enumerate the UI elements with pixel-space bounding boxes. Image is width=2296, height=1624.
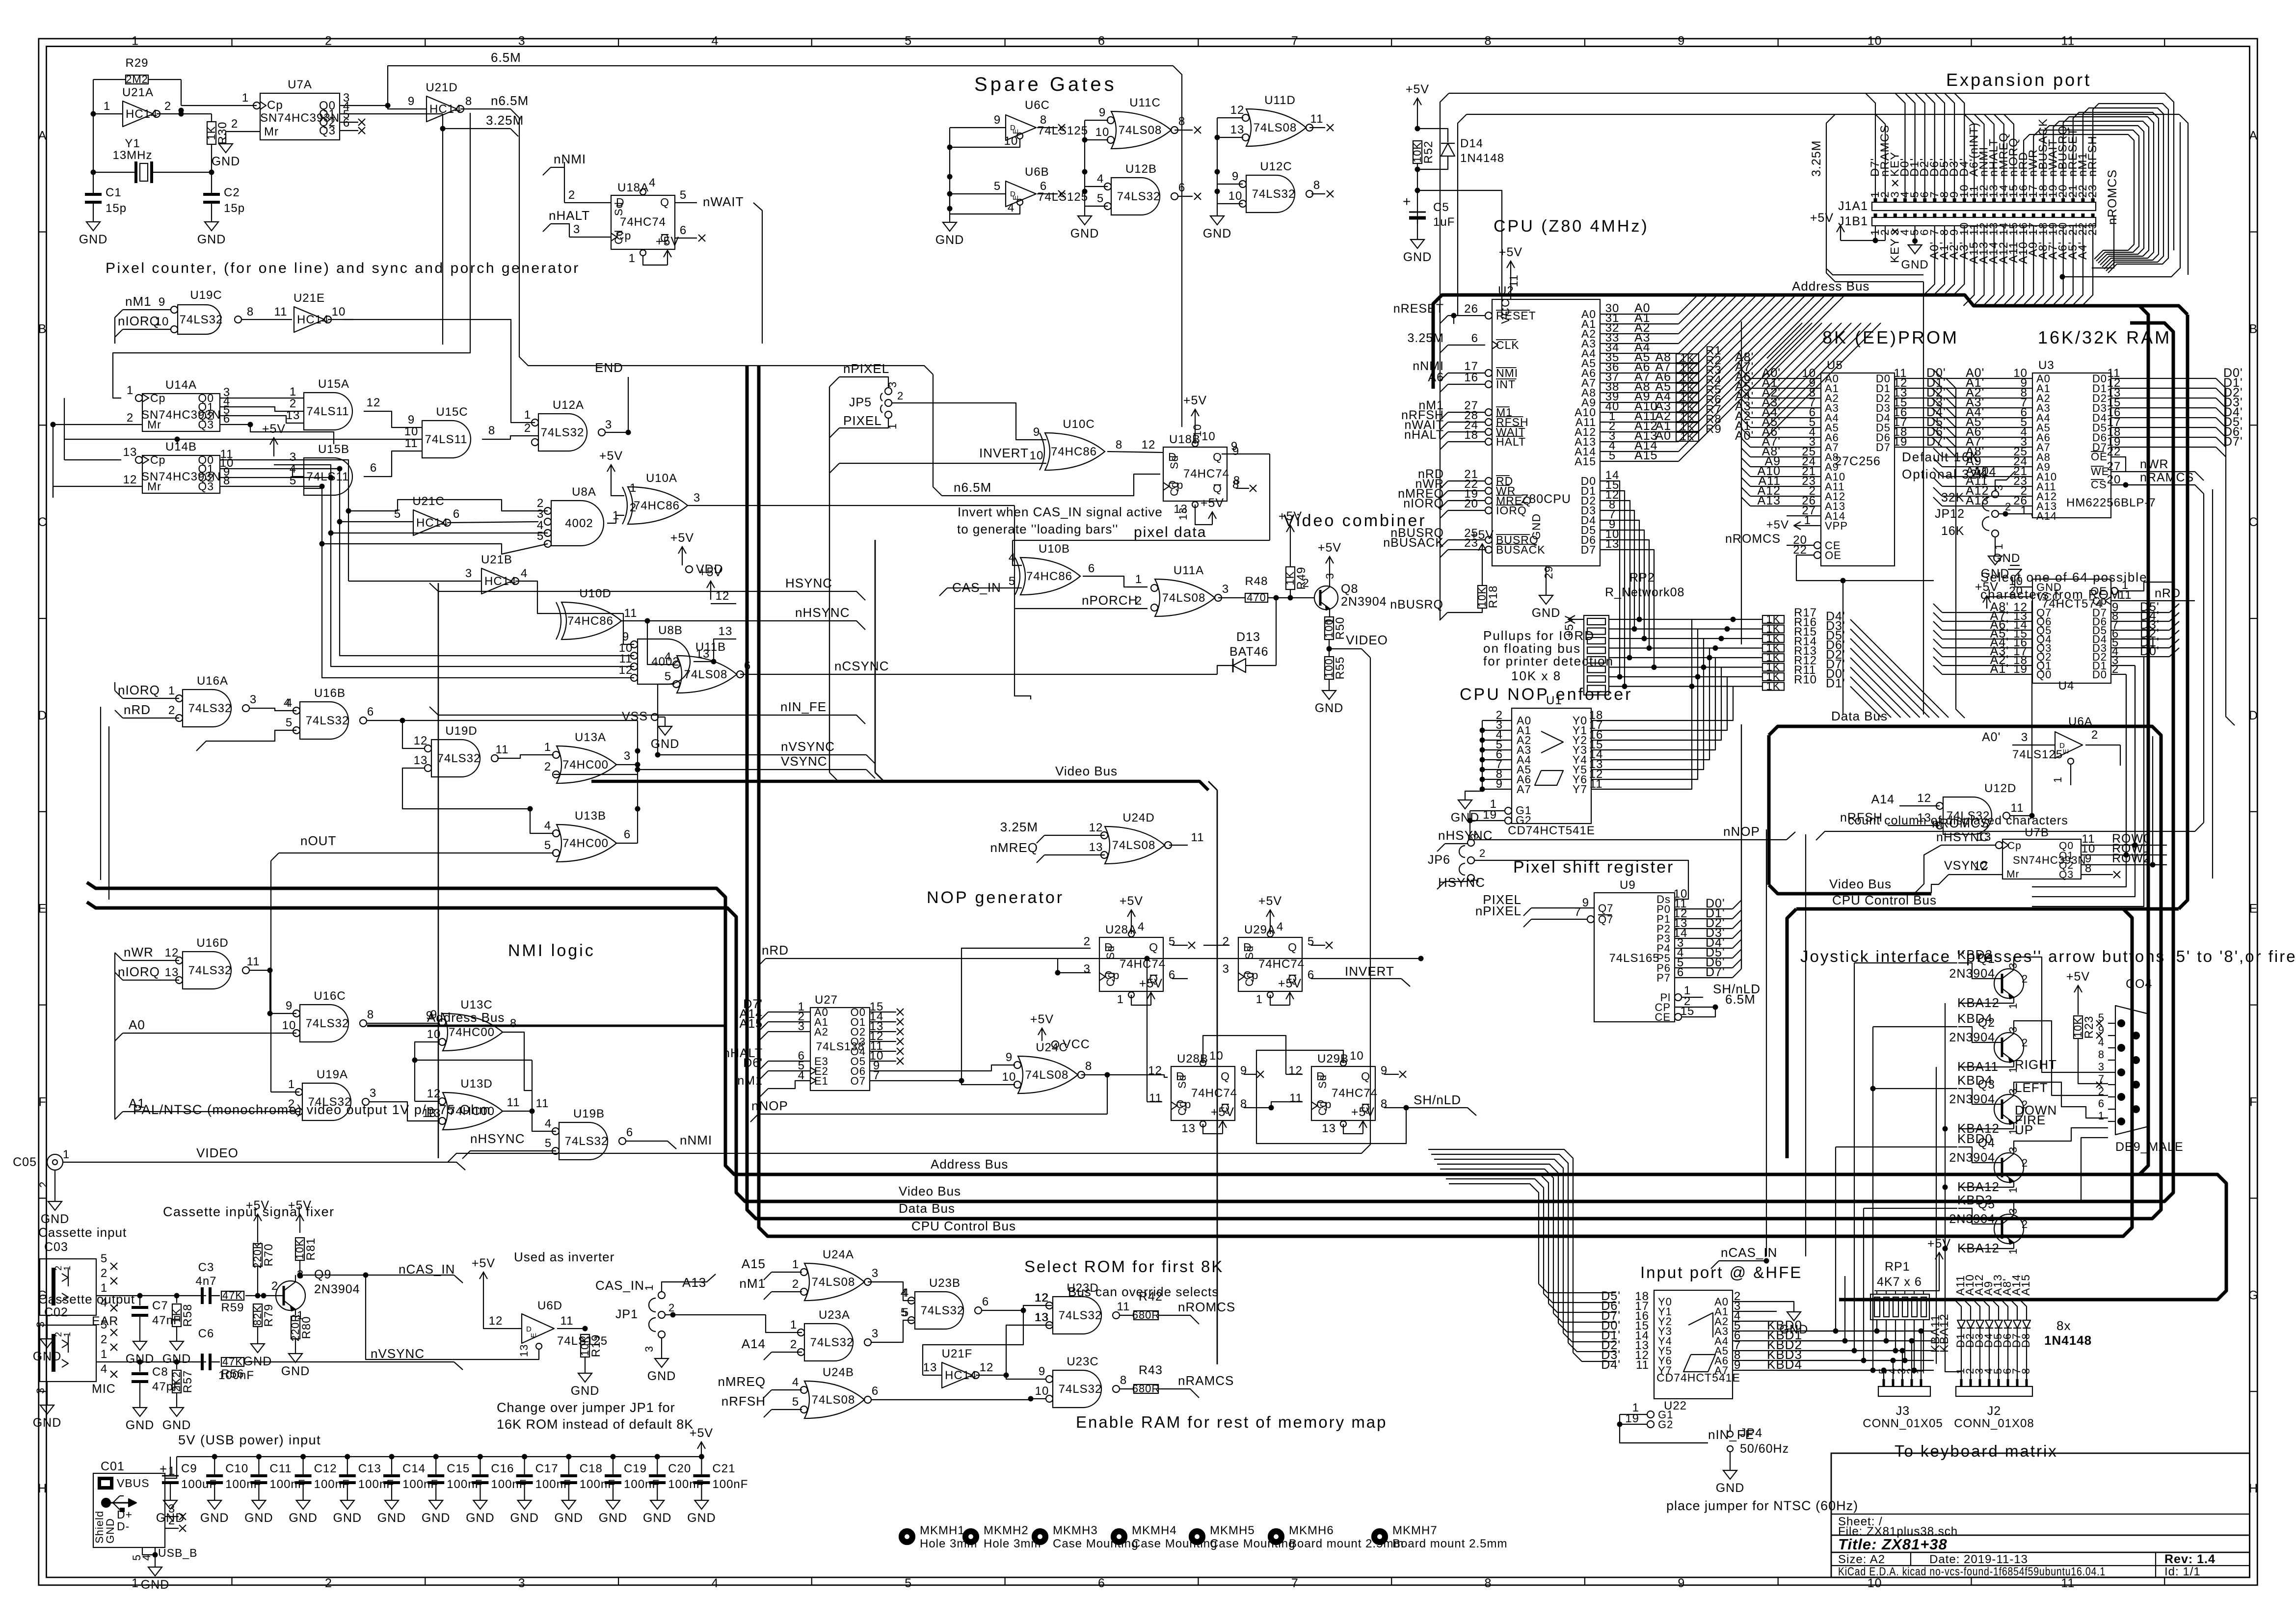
wire U16C out: [367, 1023, 440, 1024]
wire JP1 out: [665, 1314, 766, 1315]
svg-text:13: 13: [1177, 507, 1189, 520]
svg-text:R57: R57: [181, 1370, 194, 1393]
svg-text:2N3904: 2N3904: [314, 1282, 360, 1296]
svg-text:SH/nLD: SH/nLD: [1414, 1092, 1461, 1107]
svg-text:R30: R30: [216, 121, 229, 144]
wire data bus diagonal: [1850, 687, 1882, 718]
svg-text:1: 1: [132, 1576, 139, 1590]
wire: [1866, 93, 1875, 198]
wire U23C in10: [1031, 1398, 1045, 1399]
svg-text:MKMH5: MKMH5: [1210, 1524, 1255, 1537]
+5V U29B cd: [1343, 1124, 1363, 1134]
RAM D fan vertical: [2226, 388, 2235, 725]
svg-text:9: 9: [1231, 440, 1238, 453]
svg-text:U16A: U16A: [197, 674, 228, 688]
svg-text:U19B: U19B: [573, 1107, 605, 1120]
svg-text:15p: 15p: [224, 202, 245, 215]
svg-text:3.25M: 3.25M: [1408, 331, 1444, 345]
svg-text:Cd: Cd: [1316, 1101, 1329, 1116]
svg-text:13: 13: [123, 446, 137, 459]
wire: [1905, 93, 1915, 198]
J1B1 pin 23: [2091, 213, 2095, 217]
svg-text:3: 3: [518, 34, 526, 48]
svg-text:GND: GND: [643, 1511, 672, 1525]
svg-text:VPP: VPP: [1825, 520, 1848, 532]
svg-text:100nF: 100nF: [402, 1478, 438, 1491]
svg-text:R52: R52: [1422, 140, 1435, 163]
svg-text:6: 6: [223, 412, 230, 426]
svg-text:11: 11: [1149, 1092, 1162, 1105]
diode D4: [1985, 1320, 1993, 1328]
J1A1 pin 15: [2012, 198, 2016, 202]
svg-text:D14: D14: [1460, 137, 1483, 150]
wire: [93, 79, 126, 80]
svg-text:12: 12: [1288, 1064, 1303, 1077]
transistor Q4 2N3904: [1994, 1153, 2024, 1182]
+5V rail: [177, 1456, 701, 1457]
svg-text:Q: Q: [1288, 941, 1297, 954]
wire: [2083, 108, 2163, 271]
svg-text:2: 2: [37, 1181, 50, 1188]
svg-text:12: 12: [1974, 860, 1988, 873]
svg-text:1: 1: [290, 385, 296, 399]
+5V U28A cd: [1131, 995, 1151, 1005]
svg-text:4002: 4002: [565, 517, 593, 530]
svg-text:Q: Q: [1221, 1070, 1230, 1083]
svg-text:GND: GND: [1780, 1323, 1809, 1336]
svg-text:nM1: nM1: [737, 1074, 763, 1088]
svg-text:nHSYNC: nHSYNC: [795, 605, 850, 620]
svg-text:11: 11: [1289, 1092, 1303, 1105]
GND U4 top: [2015, 577, 2032, 587]
flip-flop U28A 74HC74: [1099, 937, 1163, 991]
svg-text:100nF: 100nF: [712, 1478, 748, 1491]
svg-text:12: 12: [489, 1314, 503, 1328]
wire U28B q to U29B: [1271, 1102, 1303, 1108]
svg-text:2: 2: [53, 1265, 63, 1271]
svg-text:Cp: Cp: [150, 453, 165, 466]
wire address diagonal: [1679, 295, 1796, 412]
svg-text:74LS32: 74LS32: [1059, 1309, 1102, 1322]
svg-text:11: 11: [2061, 34, 2075, 48]
svg-text:R79: R79: [262, 1304, 275, 1327]
vertical video bus feed: [875, 540, 876, 772]
wire nROMCS port: [2092, 216, 2114, 268]
svg-text:1: 1: [127, 384, 133, 397]
svg-text:9: 9: [2098, 1024, 2105, 1036]
svg-text:C8: C8: [152, 1365, 168, 1379]
J1B1 pin 22: [2081, 213, 2084, 217]
svg-text:MKMH3: MKMH3: [1053, 1524, 1098, 1537]
resistor R5 1K: [1676, 393, 1699, 402]
wire U1 output: [1591, 648, 1709, 760]
J1B1 pin 1: [1874, 213, 1877, 217]
ground: [650, 1496, 664, 1509]
svg-text:74HC86: 74HC86: [634, 499, 680, 512]
resistor R1 1K: [1676, 354, 1699, 363]
svg-text:GND: GND: [33, 1350, 62, 1363]
CPU pin BUSRQ: [1485, 536, 1492, 543]
wire pixel data to U10B: [1013, 540, 1022, 565]
gate U12B 74LS32: [1111, 178, 1160, 215]
svg-text:6.5M: 6.5M: [491, 50, 521, 65]
svg-text:Address Bus: Address Bus: [931, 1157, 1008, 1171]
svg-text:GND: GND: [212, 155, 240, 168]
svg-text:A15: A15: [1634, 449, 1657, 462]
svg-text:J2: J2: [1987, 1404, 2001, 1418]
wire: [1954, 93, 1964, 198]
svg-text:9: 9: [1381, 1064, 1388, 1077]
svg-text:U24A: U24A: [823, 1248, 854, 1261]
svg-text:Cp: Cp: [150, 392, 165, 404]
svg-text:U6C: U6C: [1025, 99, 1050, 112]
diode D14 1N4148: [1441, 143, 1455, 156]
svg-text:11: 11: [2061, 1576, 2075, 1590]
svg-text:+5V: +5V: [1318, 541, 1341, 555]
svg-text:2: 2: [668, 1302, 675, 1314]
svg-text:C17: C17: [535, 1462, 559, 1475]
wire U10B out to U11A: [1083, 576, 1148, 587]
svg-text:U28A: U28A: [1105, 923, 1137, 936]
svg-text:OE: OE: [1825, 549, 1842, 561]
svg-text:20: 20: [2009, 585, 2023, 598]
svg-text:74HC86: 74HC86: [567, 614, 614, 628]
svg-text:R70: R70: [262, 1243, 275, 1266]
wire U8A in2: [348, 500, 548, 511]
wire U1 output: [1591, 667, 1721, 741]
wire address diagonal: [1679, 295, 1766, 383]
svg-text:D+: D+: [117, 1508, 133, 1521]
svg-text:74LS32: 74LS32: [306, 714, 349, 727]
svg-text:Data Bus: Data Bus: [899, 1201, 955, 1216]
svg-text:C02: C02: [44, 1305, 68, 1319]
svg-text:20: 20: [1464, 497, 1478, 510]
svg-text:A1': A1': [1990, 662, 2009, 676]
svg-text:3: 3: [518, 1576, 526, 1590]
J1B1 pin 21: [2071, 213, 2075, 217]
svg-text:5: 5: [1009, 575, 1015, 588]
wire U13D in12: [415, 1101, 440, 1102]
label nCAS_IN: [300, 1275, 454, 1276]
svg-text:680R: 680R: [1132, 1383, 1160, 1395]
svg-text:5V (USB power) input: 5V (USB power) input: [178, 1433, 321, 1447]
svg-text:G2: G2: [1516, 814, 1532, 826]
svg-text:JP5: JP5: [849, 396, 872, 409]
wire MIC out: [96, 1361, 206, 1362]
wire ROW risers: [2135, 666, 2136, 845]
svg-text:3: 3: [2098, 1061, 2105, 1073]
svg-text:74LS32: 74LS32: [921, 1304, 964, 1317]
svg-text:5: 5: [1609, 449, 1616, 462]
svg-text:9: 9: [1678, 34, 1685, 48]
svg-text:3: 3: [2007, 962, 2019, 969]
gate U16D 74LS32: [183, 952, 231, 989]
svg-text:11: 11: [247, 955, 260, 968]
svg-text:C9: C9: [181, 1462, 197, 1475]
svg-text:U9: U9: [1620, 879, 1636, 892]
J1A1 pin 12: [1982, 198, 1986, 202]
svg-text:2: 2: [127, 411, 133, 425]
svg-text:GND: GND: [41, 1212, 70, 1226]
label nIN_FE: [1620, 1424, 1708, 1443]
svg-text:GND: GND: [289, 1511, 318, 1525]
diode D5: [1995, 1320, 2002, 1328]
wire Q0-U15A: [220, 398, 304, 399]
inverter U21D: [427, 96, 457, 122]
svg-text:nBUSACK: nBUSACK: [1383, 536, 1444, 550]
svg-text:6: 6: [1308, 968, 1314, 982]
svg-text:74LS11: 74LS11: [307, 470, 349, 483]
svg-text:8: 8: [1178, 115, 1185, 128]
bus CPU Control right mid: [1796, 907, 2179, 911]
svg-text:U23A: U23A: [819, 1308, 850, 1322]
svg-text:4: 4: [665, 650, 671, 664]
no-connect Q2: [340, 122, 358, 123]
tri-state buffer U6C 74LS125: [1006, 115, 1036, 140]
svg-text:10: 10: [1030, 449, 1044, 462]
power-on reset R52 D14 C5: [1417, 98, 1418, 117]
svg-text:Invert when CAS_IN signal acti: Invert when CAS_IN signal active: [958, 505, 1163, 519]
wire U12A in1: [344, 319, 535, 423]
wire address bus middle: [367, 1025, 725, 1027]
svg-text:VIDEO: VIDEO: [1346, 633, 1388, 647]
transistor Q8 2N3904: [1314, 586, 1338, 610]
label nHSYNC: [647, 621, 865, 630]
svg-text:+5V: +5V: [599, 449, 623, 463]
svg-text:+5V: +5V: [1211, 1105, 1234, 1119]
bus Address Bus right loop: [1433, 295, 2148, 1174]
svg-text:D6': D6': [743, 1056, 763, 1070]
svg-text:MKMH2: MKMH2: [984, 1524, 1029, 1537]
svg-text:74HC00: 74HC00: [562, 837, 609, 850]
svg-text:11: 11: [624, 607, 638, 620]
svg-text:47K: 47K: [222, 1356, 243, 1368]
resistor R12 1K: [1762, 664, 1784, 671]
svg-text:Cd: Cd: [1168, 481, 1180, 496]
J1B1 pin 15: [2012, 213, 2016, 217]
wire U13A out: [616, 764, 638, 765]
gate U11A 74LS08: [1155, 579, 1215, 616]
wire data net vertical: [1600, 501, 1630, 658]
svg-text:Q3: Q3: [198, 480, 214, 493]
svg-text:SN74HC393N: SN74HC393N: [2013, 854, 2086, 866]
wire U13C in10: [415, 1042, 532, 1060]
svg-text:10: 10: [1035, 1384, 1049, 1398]
svg-text:nM1: nM1: [125, 294, 152, 309]
svg-text:A: A: [2249, 129, 2258, 143]
svg-text:74HC86: 74HC86: [1051, 445, 1097, 458]
svg-text:8: 8: [465, 95, 472, 108]
svg-text:CAS_IN: CAS_IN: [595, 1278, 644, 1293]
transistor Q5 2N3904: [1994, 1214, 2024, 1244]
svg-text:+5V: +5V: [262, 422, 286, 436]
gate U16A 74LS32: [183, 690, 231, 727]
ground: [694, 1496, 708, 1509]
svg-text:74LS08: 74LS08: [1254, 121, 1297, 134]
svg-text:8: 8: [488, 424, 495, 437]
svg-text:place jumper for NTSC (60Hz): place jumper for NTSC (60Hz): [1666, 1498, 1858, 1513]
svg-text:RESET: RESET: [1496, 309, 1536, 322]
svg-text:nCSYNC: nCSYNC: [834, 659, 889, 673]
svg-text:2: 2: [568, 188, 575, 202]
svg-text:7: 7: [1291, 1576, 1299, 1590]
svg-text:26: 26: [1464, 302, 1478, 316]
connector CO5: [47, 1154, 63, 1170]
capacitor C20 100nF: [655, 1454, 660, 1460]
svg-text:2: 2: [1223, 935, 1229, 948]
svg-text:U11B: U11B: [695, 640, 726, 654]
J1A1 pin 17: [2032, 198, 2035, 202]
svg-text:4: 4: [521, 567, 528, 580]
svg-text:Address Bus: Address Bus: [1792, 279, 1869, 293]
diode D7: [2013, 1320, 2021, 1328]
U22 A0 gnd: [1777, 1302, 1794, 1308]
svg-text:9: 9: [1678, 1576, 1685, 1590]
wire 3.25M bottom: [1827, 269, 1923, 275]
svg-text:Input port @ &HFE: Input port @ &HFE: [1640, 1263, 1802, 1281]
title block: [1831, 1453, 2250, 1577]
svg-text:BAT46: BAT46: [1229, 645, 1269, 659]
resistor R13 1K: [1762, 654, 1784, 662]
shift register U9 74LS165: [1594, 893, 1675, 1022]
svg-text:9: 9: [408, 413, 415, 426]
mounting hole MKMH2: [963, 1529, 979, 1544]
svg-text:10: 10: [1201, 430, 1216, 443]
svg-text:Id: 1/1: Id: 1/1: [2164, 1565, 2201, 1578]
inverter U21A: [123, 101, 153, 127]
svg-text:74LS165: 74LS165: [1609, 952, 1659, 965]
svg-text:Spare Gates: Spare Gates: [974, 74, 1117, 95]
svg-text:BUSACK: BUSACK: [1496, 543, 1546, 556]
svg-text:3: 3: [1993, 484, 2005, 491]
svg-text:U21B: U21B: [481, 553, 512, 566]
svg-text:U14A: U14A: [165, 378, 197, 392]
svg-text:9: 9: [994, 113, 1001, 127]
svg-text:3: 3: [872, 1267, 879, 1280]
svg-text:A0: A0: [1655, 429, 1671, 443]
svg-text:74LS32: 74LS32: [541, 426, 585, 439]
svg-text:2: 2: [2091, 728, 2098, 742]
svg-text:2: 2: [2005, 501, 2011, 513]
svg-text:R9: R9: [1706, 423, 1722, 436]
resistor R29: [126, 75, 148, 84]
svg-text:nWR: nWR: [124, 945, 154, 959]
gate U12C 74LS32: [1246, 175, 1295, 213]
+5V U15B pin3: [273, 438, 274, 456]
svg-text:100nF: 100nF: [491, 1478, 527, 1491]
svg-text:74LS08: 74LS08: [812, 1276, 855, 1289]
svg-text:10: 10: [1191, 424, 1203, 437]
flip-flop U18A 74HC74: [611, 195, 675, 249]
bus CPU Control Bus: [759, 366, 2132, 1236]
wire U15B out to U15C: [364, 451, 422, 477]
wire U18A Q nWAIT: [675, 202, 697, 203]
svg-text:U21E: U21E: [294, 292, 325, 305]
svg-text:R10: R10: [1794, 673, 1817, 687]
wire U19D out to U13A: [497, 755, 554, 758]
svg-text:GND: GND: [687, 1511, 716, 1525]
svg-text:Video Bus: Video Bus: [1829, 877, 1892, 891]
wire U8B in9: [623, 613, 634, 644]
resistor R7 1K: [1676, 413, 1699, 422]
buffer U6A: [2055, 732, 2082, 758]
svg-text:HC14: HC14: [429, 103, 461, 116]
svg-text:A2: A2: [814, 1026, 828, 1038]
svg-text:R18: R18: [1487, 585, 1500, 608]
bus Address Bus left: [87, 882, 2226, 1300]
svg-text:GND: GND: [1203, 227, 1232, 240]
wire U23C in9: [1006, 1375, 1045, 1379]
CPU pin MREQ: [1485, 497, 1492, 504]
J1A1 pin 16: [2022, 198, 2026, 202]
svg-text:U10D: U10D: [579, 587, 611, 600]
counter U7A SN74HC393N: [260, 93, 340, 140]
wires Q collectors: [2014, 957, 2108, 1072]
wire data bus diagonal: [1850, 619, 1949, 718]
svg-text:8: 8: [367, 1008, 374, 1021]
svg-text:4: 4: [1097, 172, 1104, 186]
svg-text:VCC: VCC: [1063, 1038, 1090, 1051]
svg-text:nRD: nRD: [124, 702, 151, 717]
svg-text:74LS11: 74LS11: [307, 405, 349, 418]
nand U19C: [178, 305, 221, 334]
gate U10B 74HC86: [1020, 558, 1080, 595]
CPU pin RESET: [1485, 312, 1492, 319]
wire pin10 long: [64, 398, 422, 439]
svg-text:C03: C03: [44, 1240, 68, 1254]
svg-text:2: 2: [271, 1279, 278, 1293]
svg-text:J1B1: J1B1: [1838, 214, 1868, 228]
wire U8A out: [607, 523, 616, 524]
svg-text:U21D: U21D: [426, 81, 457, 94]
wire: [2093, 104, 2168, 273]
big vertical right of NOP: [1217, 790, 1218, 1364]
svg-text:VBUS: VBUS: [117, 1477, 150, 1490]
svg-text:74LS08: 74LS08: [1025, 1068, 1069, 1082]
svg-text:VSYNC: VSYNC: [781, 754, 828, 769]
gate U13B 74HC00: [557, 825, 616, 862]
left vertical wires: [114, 682, 115, 691]
wire KBD vertical: [1844, 1276, 1845, 1341]
wire data net vertical: [1600, 481, 1620, 677]
svg-text:2: 2: [2098, 1085, 2105, 1097]
svg-text:nRD: nRD: [762, 943, 789, 958]
svg-text:+5V: +5V: [472, 1256, 495, 1270]
svg-text:1K: 1K: [1766, 680, 1781, 692]
ground R55: [1322, 687, 1336, 699]
svg-text:5: 5: [2098, 1012, 2105, 1024]
svg-text:R19: R19: [589, 1334, 603, 1357]
svg-text:CONN_01X05: CONN_01X05: [1863, 1417, 1943, 1430]
ground: [341, 1496, 354, 1509]
gate U24B 74LS08: [804, 1381, 864, 1418]
wire address diagonal: [1679, 295, 1806, 422]
capacitor C21 100nF: [699, 1454, 704, 1460]
J1A1 pin 11: [1973, 198, 1976, 202]
svg-text:count column of displayed char: count column of displayed characters: [1848, 814, 2068, 827]
svg-text:U7B: U7B: [2025, 826, 2049, 839]
svg-text:13: 13: [1035, 1311, 1049, 1324]
svg-text:U4: U4: [2058, 679, 2075, 692]
J1B1 pin 3: [1894, 213, 1897, 217]
svg-text:3: 3: [250, 693, 257, 706]
resistor R8 1K: [1676, 423, 1699, 431]
svg-text:C3: C3: [198, 1261, 214, 1274]
svg-text:2: 2: [897, 390, 904, 402]
+5V U18B sd: [1195, 422, 1196, 444]
resistor R23 10K: [2078, 985, 2079, 1004]
svg-text:U6B: U6B: [1025, 165, 1049, 179]
